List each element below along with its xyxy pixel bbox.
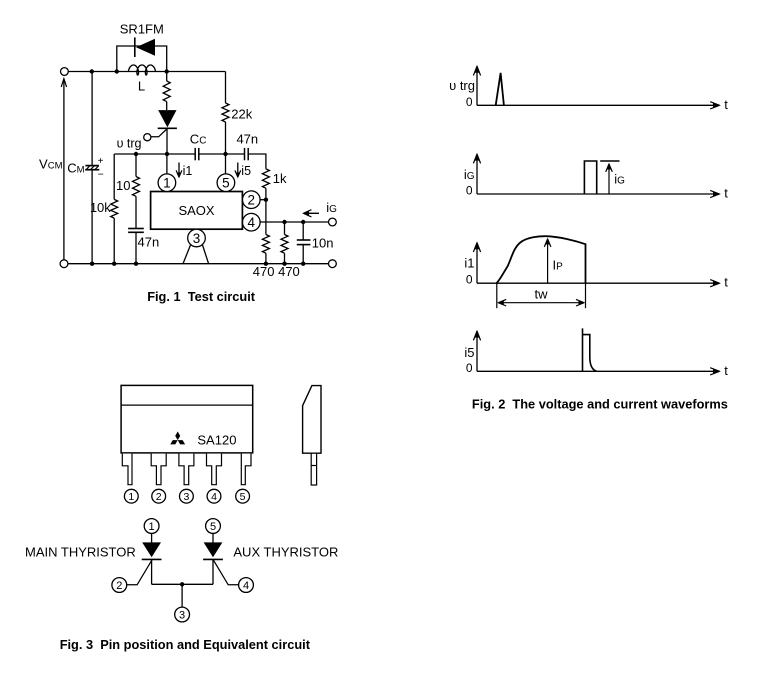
- node bottom / 470 first: [264, 262, 268, 266]
- node pin2 junction: [264, 198, 268, 202]
- wire pin5 to aux thyristor anode: [212, 533, 214, 542]
- svg-text:i1: i1: [183, 164, 193, 178]
- wire 10 branch lower: [135, 232, 137, 263]
- package side view body: [303, 386, 321, 454]
- pulse i5: [583, 328, 597, 371]
- wire 1k to pin2 node: [265, 188, 267, 234]
- equiv pin 4 circle: [239, 578, 254, 593]
- svg-text:υ trg: υ trg: [449, 78, 475, 93]
- svg-text:4: 4: [243, 580, 249, 592]
- svg-text:t: t: [724, 275, 728, 290]
- svg-text:1: 1: [128, 491, 134, 503]
- wire pin5: [225, 154, 227, 174]
- svg-text:3: 3: [193, 231, 201, 246]
- svg-text:MAIN THYRISTOR: MAIN THYRISTOR: [25, 544, 136, 559]
- svg-text:4: 4: [248, 215, 256, 230]
- pin number 5 circled: [236, 489, 250, 503]
- wire thyristor cathode: [166, 128, 168, 154]
- resistor 10: [133, 177, 140, 197]
- pin 4 lead: [207, 454, 222, 485]
- svg-text:SA120: SA120: [197, 433, 236, 448]
- equiv pin 5 circle: [206, 519, 221, 534]
- wire 470 first lower: [265, 253, 267, 264]
- wire top horizontal: [68, 71, 225, 73]
- pin 1 circle: [158, 174, 176, 192]
- svg-text:22k: 22k: [231, 106, 252, 121]
- pin number 3 circled: [180, 489, 194, 503]
- axes waveform i1: [476, 247, 478, 283]
- gate wire of thyristor: [151, 130, 166, 137]
- resistor 470 second: [281, 235, 288, 254]
- svg-text:IP: IP: [553, 258, 564, 273]
- svg-text:2: 2: [248, 193, 256, 208]
- wire cathode bus: [152, 583, 213, 585]
- pulse iG: [584, 161, 596, 194]
- svg-text:0: 0: [466, 273, 473, 287]
- svg-text:Fig. 1 Test circuit: Fig. 1 Test circuit: [147, 289, 256, 304]
- svg-text:i5: i5: [464, 345, 474, 360]
- resistor 1k: [262, 169, 269, 188]
- wire 470 second: [284, 222, 286, 235]
- svg-text:t: t: [724, 186, 728, 201]
- wire 22k branch vertical: [225, 72, 227, 104]
- resistor R-anode: [163, 81, 170, 102]
- wire pin3 legs: [183, 245, 191, 264]
- svg-text:SR1FM: SR1FM: [120, 22, 164, 37]
- svg-text:υ trg: υ trg: [117, 137, 142, 151]
- node gate wire / 22k pin5: [223, 152, 227, 156]
- terminal v-trg gate drive: [144, 134, 151, 141]
- svg-text:CM: CM: [67, 161, 84, 176]
- diode SR1FM: [136, 39, 155, 56]
- svg-text:i5: i5: [241, 164, 251, 178]
- terminal bottom-right: [329, 260, 337, 268]
- svg-text:10k: 10k: [90, 200, 111, 215]
- wire pin1 to main thyristor anode: [151, 533, 153, 542]
- resistor 10k: [111, 199, 118, 218]
- gate wire aux thyristor: [213, 560, 238, 585]
- capacitor 47n series: [244, 148, 246, 160]
- resistor 22k: [222, 103, 229, 122]
- node bottom / CM: [90, 262, 94, 266]
- wire CM rail: [91, 72, 93, 166]
- iG amplitude arrow: [608, 166, 610, 195]
- svg-text:2: 2: [156, 491, 162, 503]
- pin 2 lead: [151, 454, 166, 485]
- wire to pin3: [181, 584, 183, 607]
- svg-text:iG: iG: [464, 167, 475, 182]
- wire pin2 to node: [260, 199, 266, 201]
- svg-text:−: −: [98, 169, 104, 181]
- wire 10 branch upper: [135, 154, 137, 177]
- node bottom / 470 second: [282, 262, 286, 266]
- svg-text:L: L: [138, 79, 145, 94]
- pin 3 lead: [179, 454, 194, 485]
- capacitor 10n: [302, 222, 304, 240]
- tw tick right: [585, 283, 587, 308]
- curve i1: [497, 236, 586, 283]
- node top wire / snubber left: [115, 69, 119, 73]
- pin number 2 circled: [152, 489, 166, 503]
- svg-text:Fig. 2 The voltage and curren: Fig. 2 The voltage and current waveforms: [472, 396, 728, 411]
- thyristor Q1: [158, 110, 176, 127]
- resistor 470 first: [262, 235, 269, 254]
- wire resistor to thyristor anode: [166, 102, 168, 111]
- package body front view: [121, 385, 253, 453]
- gate wire main thyristor: [127, 560, 152, 585]
- pulse v trg: [496, 73, 504, 105]
- svg-text:5: 5: [222, 176, 230, 191]
- svg-text:470 470: 470 470: [253, 264, 300, 279]
- terminal bottom-left: [60, 260, 68, 268]
- node top wire / L output: [165, 69, 169, 73]
- ic U1 SAOX box: [151, 192, 243, 230]
- node gate wire / thyristor: [165, 152, 169, 156]
- pin 1 lead: [122, 454, 132, 485]
- package side view lead: [311, 453, 316, 485]
- wire main thyristor cathode: [151, 559, 153, 584]
- axes waveform v trg: [476, 71, 478, 106]
- pin number 4 circled: [207, 489, 221, 503]
- current arrow i1: [178, 163, 180, 177]
- iG direction arrow: [306, 212, 320, 214]
- wire gate horizontal mid: [199, 153, 245, 155]
- svg-text:47n: 47n: [138, 235, 160, 250]
- wire 10 branch mid: [135, 196, 137, 228]
- tw double arrow: [500, 302, 582, 304]
- axes waveform iG: [476, 159, 478, 194]
- svg-text:t: t: [724, 363, 728, 378]
- svg-text:i1: i1: [464, 256, 474, 271]
- pin 3 circle: [188, 229, 206, 247]
- svg-text:1: 1: [149, 521, 155, 533]
- equiv pin 2 circle: [112, 578, 127, 593]
- svg-text:0: 0: [466, 361, 473, 375]
- svg-text:3: 3: [179, 609, 185, 621]
- wire pin4 to iG terminal: [260, 221, 329, 223]
- equiv pin 1 circle: [144, 519, 159, 534]
- wire snubber diode loop: [117, 46, 167, 72]
- svg-text:4: 4: [211, 491, 217, 503]
- equiv pin 3 circle: [175, 607, 190, 622]
- capacitor Cc: [194, 148, 196, 160]
- wire 10k branch: [113, 154, 115, 199]
- svg-text:3: 3: [183, 491, 189, 503]
- axes waveform i5: [476, 336, 478, 372]
- svg-text:10: 10: [116, 178, 130, 193]
- node bottom / 47n: [134, 262, 138, 266]
- terminal iG: [329, 218, 337, 226]
- package top groove line: [121, 404, 253, 406]
- node cathode bus center: [180, 582, 184, 586]
- capacitor 47n shunt: [128, 228, 144, 230]
- svg-text:2: 2: [116, 580, 122, 592]
- node bottom / 10k: [112, 262, 116, 266]
- svg-text:1k: 1k: [273, 171, 287, 186]
- node pin4 wire / 470: [282, 220, 286, 224]
- svg-text:CC: CC: [190, 132, 207, 147]
- svg-text:10n: 10n: [312, 235, 334, 250]
- wire aux thyristor cathode: [212, 559, 214, 584]
- svg-text:47n: 47n: [236, 132, 258, 147]
- pin 2 circle: [243, 191, 261, 209]
- svg-text:5: 5: [240, 491, 246, 503]
- wire L to resistor: [166, 72, 168, 82]
- svg-text:VCM: VCM: [39, 156, 63, 171]
- aux thyristor: [204, 542, 223, 557]
- capacitor CM electrolytic: [85, 165, 99, 167]
- node pin4 wire / 10n: [301, 220, 305, 224]
- pin number 1 circled: [124, 489, 138, 503]
- pin 5 circle: [217, 174, 235, 192]
- svg-text:SAOX: SAOX: [178, 203, 214, 218]
- tw tick left: [496, 283, 498, 308]
- svg-text:0: 0: [466, 184, 473, 198]
- inductor L: [128, 65, 155, 75]
- svg-text:Fig. 3 Pin position and Equiv: Fig. 3 Pin position and Equivalent circu…: [60, 637, 311, 652]
- node top wire / CM rail: [90, 69, 94, 73]
- svg-text:5: 5: [210, 521, 216, 533]
- current arrow i5: [237, 163, 239, 177]
- wire pin1: [166, 154, 168, 174]
- svg-text:iG: iG: [326, 200, 337, 215]
- pin 4 circle: [243, 213, 261, 231]
- wire gate horizontal left: [114, 153, 195, 155]
- wire gate to 1k: [248, 154, 266, 169]
- svg-text:AUX THYRISTOR: AUX THYRISTOR: [233, 544, 338, 559]
- svg-text:tw: tw: [535, 287, 549, 302]
- main thyristor: [142, 542, 161, 557]
- node gate wire / 10 branch: [134, 152, 138, 156]
- terminal top-left VCM+: [61, 68, 69, 76]
- wire bottom horizontal: [68, 263, 329, 265]
- pin 5 lead: [241, 454, 251, 485]
- IP arrow: [547, 241, 549, 284]
- iG amplitude bar: [600, 160, 619, 162]
- svg-text:+: +: [98, 156, 104, 167]
- logo mitsubishi: [175, 432, 180, 441]
- svg-text:1: 1: [163, 176, 171, 191]
- wire left rail with VCM arrow: [63, 79, 65, 260]
- node bottom / 10n: [301, 262, 305, 266]
- svg-text:0: 0: [466, 95, 473, 109]
- svg-text:t: t: [724, 97, 728, 112]
- svg-text:iG: iG: [614, 172, 625, 187]
